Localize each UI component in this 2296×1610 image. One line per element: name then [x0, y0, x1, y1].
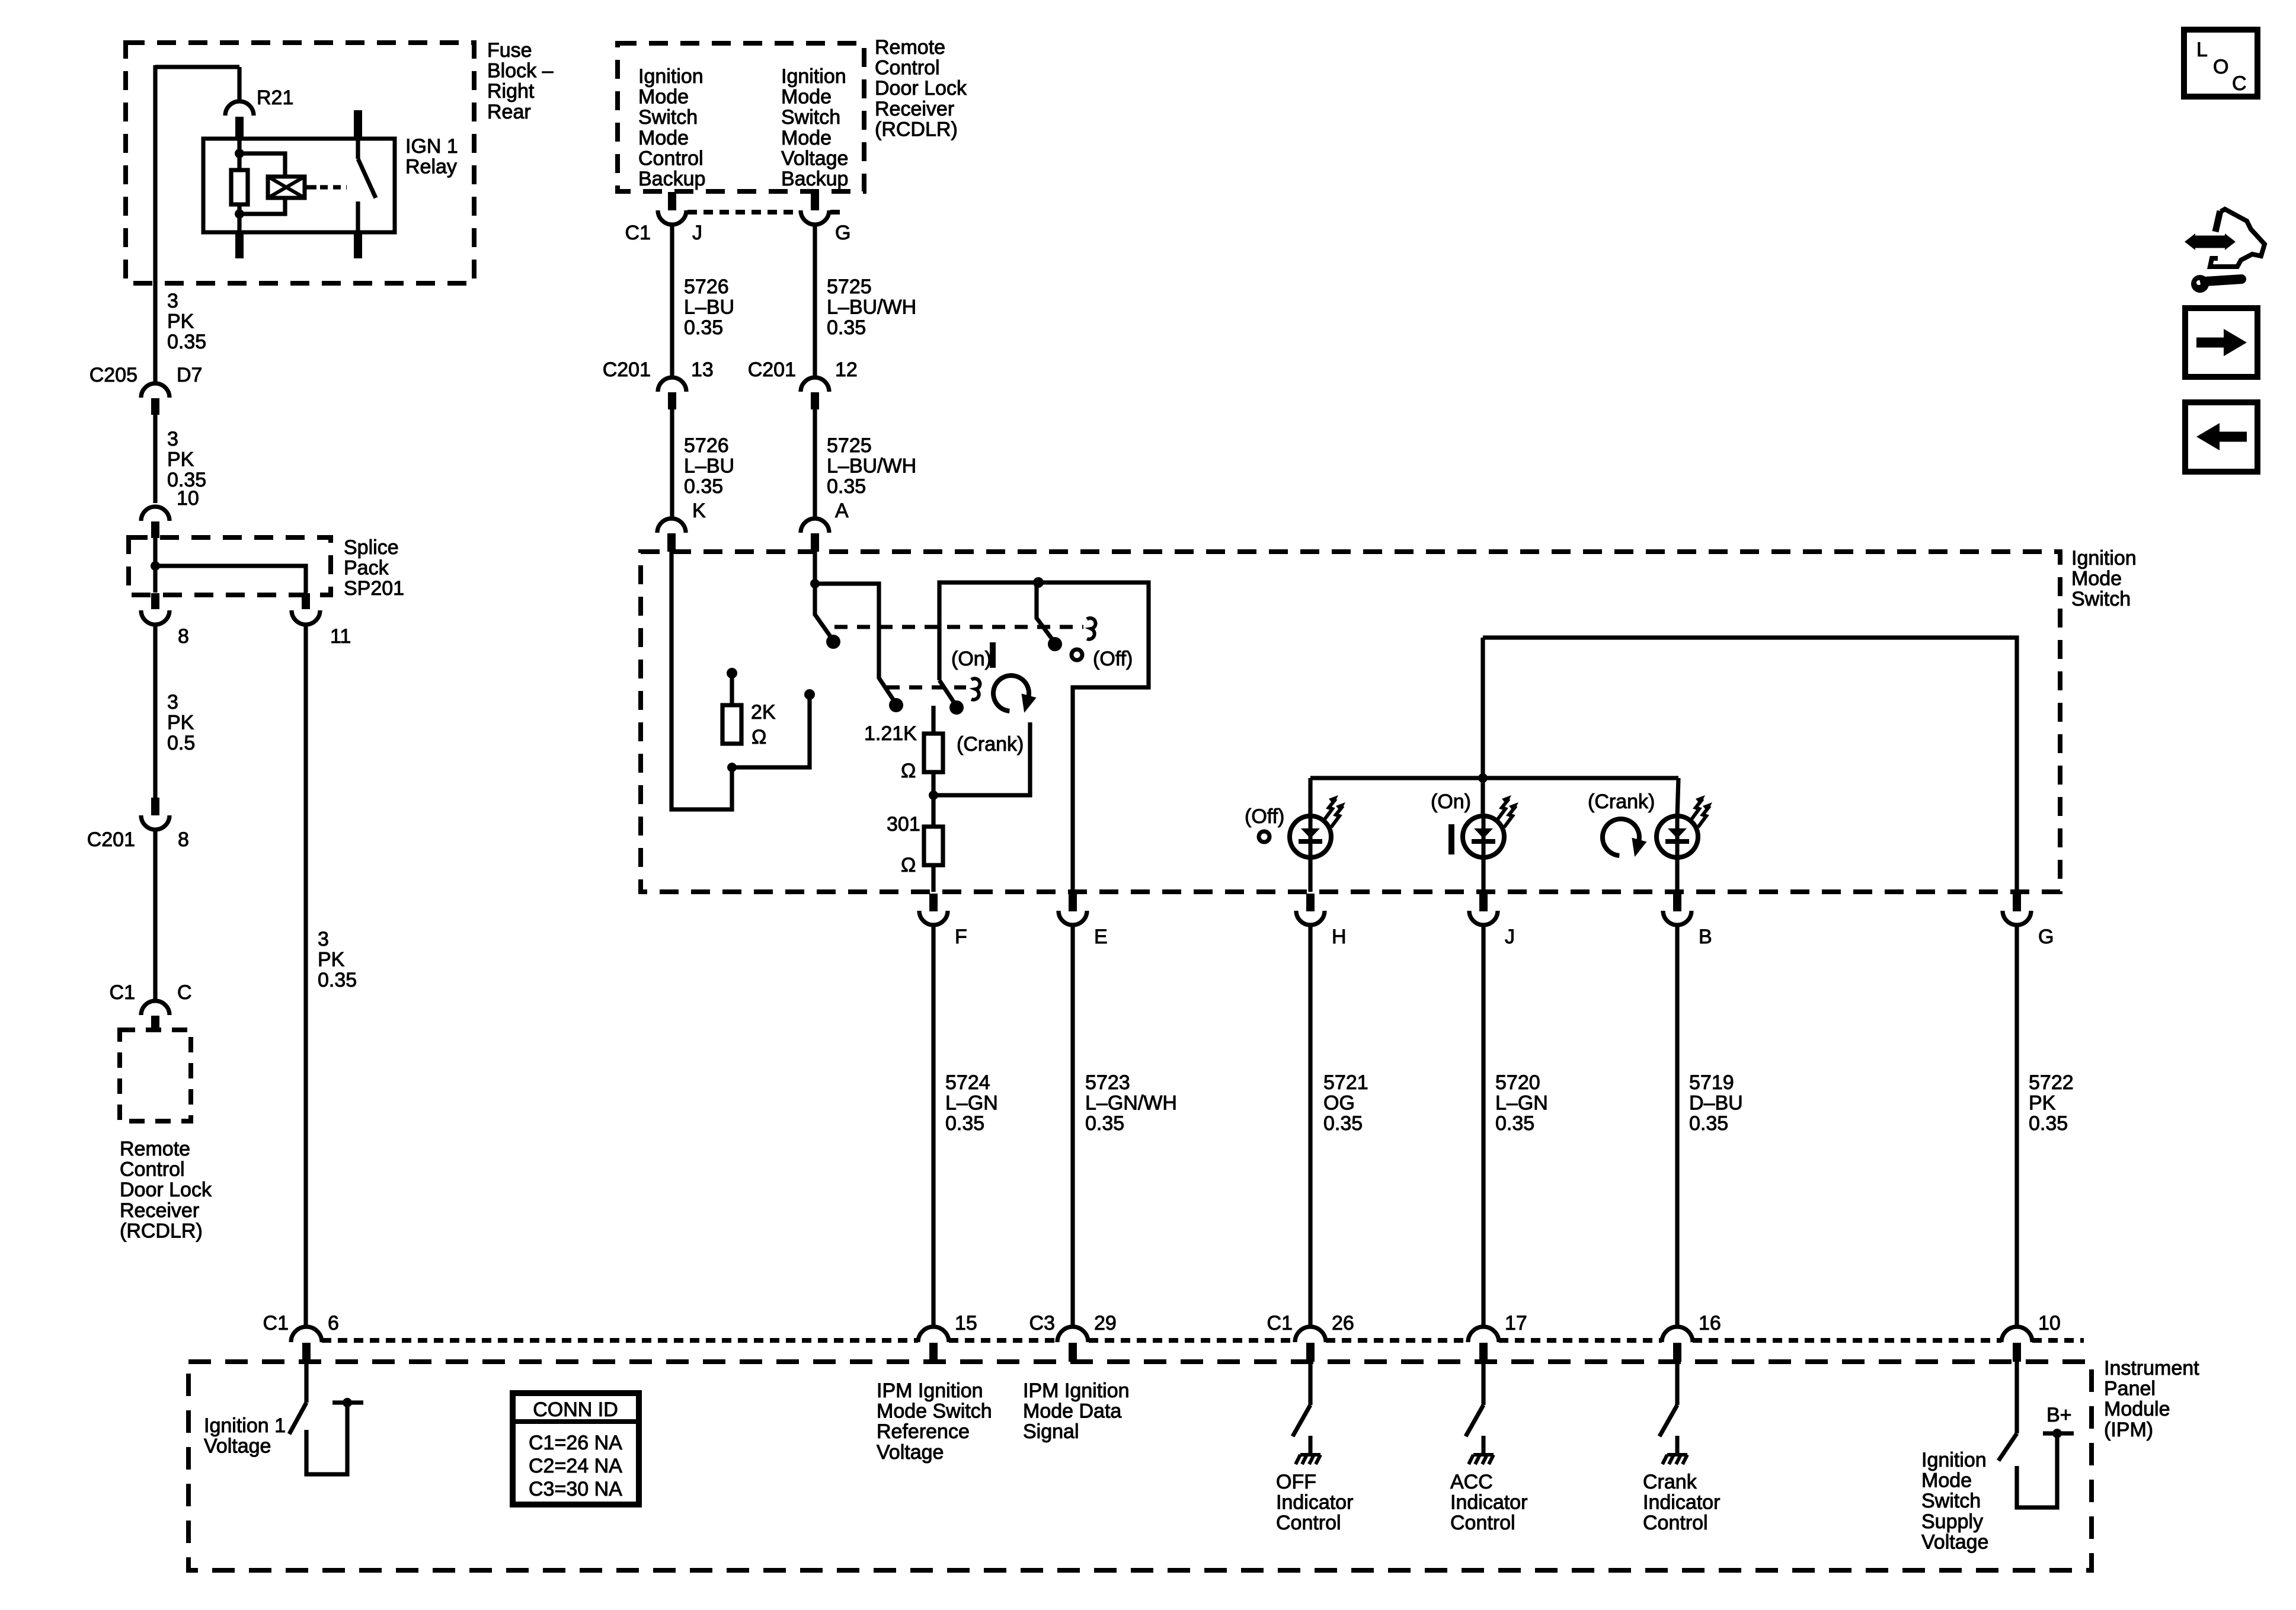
ground Crank Indicator Control [1662, 1436, 1687, 1464]
svg-text:H: H [1332, 926, 1347, 948]
pin terminal H (switch) [1306, 894, 1315, 911]
svg-text:13: 13 [691, 359, 714, 381]
switch arm 1 (mode control) [815, 584, 833, 641]
wire LED H to terminal [1308, 857, 1312, 892]
circle off LED marker [1259, 831, 1269, 842]
arm 1 end dot [826, 635, 840, 649]
svg-text:C1: C1 [1267, 1312, 1293, 1334]
connector arc terminal B [1663, 911, 1691, 925]
svg-text:C201: C201 [603, 359, 651, 381]
wire 5720 run [1481, 926, 1485, 1327]
wire LED feed vertical [1480, 638, 1485, 778]
pin IPM terminal 10 [2013, 1343, 2021, 1362]
pin terminal J (switch) [1479, 894, 1488, 911]
connector C205 arc [141, 383, 170, 398]
wire 5721 run [1308, 926, 1312, 1327]
junction node splice SP201 [151, 561, 160, 571]
svg-text:J: J [692, 222, 702, 244]
pin C205 terminal D7 [151, 398, 159, 415]
svg-text:(On): (On) [951, 648, 992, 670]
pin terminal B (switch) [1673, 894, 1681, 911]
connector arc terminal J [1469, 911, 1498, 925]
svg-text:L: L [2196, 39, 2208, 61]
wire IPM pin6 internal [304, 1362, 308, 1403]
svg-text:15: 15 [955, 1312, 977, 1334]
switch arm Crank Indicator Control [1659, 1405, 1677, 1436]
wire relay coil top link [239, 153, 285, 177]
pin IPM terminal 15 [929, 1343, 938, 1362]
svg-text:IgnitionModeSwitchSupplyVoltag: IgnitionModeSwitchSupplyVoltage [1921, 1449, 1988, 1553]
wire B+ hook [2017, 1433, 2057, 1507]
wire LED bus horizontal [1310, 776, 1678, 780]
connector arc C1-C RCDLR [141, 1001, 170, 1015]
svg-text:C: C [2232, 72, 2247, 95]
pin IPM terminal 16 [1673, 1343, 1681, 1362]
pin RCDLR terminal G [811, 192, 819, 210]
resistor 1.21K [924, 734, 943, 772]
wire LED B to terminal [1675, 857, 1679, 892]
wire connector C1 dashed line (RCDLR) [687, 210, 800, 215]
On LED bar marker [1448, 824, 1454, 854]
coil relay IGN 1 [268, 177, 305, 198]
wire 5725 lower segment [813, 409, 817, 518]
connector C201 arc (left) [141, 815, 170, 830]
connector arc C201-12 [801, 377, 829, 392]
circle Off position indicator [1072, 649, 1082, 660]
wire connector C1 dashed line right stub [830, 210, 846, 215]
wire fuse block top horizontal [155, 65, 239, 69]
junction node 1.21K-301 [929, 790, 938, 800]
svg-text:10: 10 [2038, 1312, 2061, 1334]
svg-text:C1: C1 [625, 222, 651, 244]
svg-text:IgnitionModeSwitchModeVoltageB: IgnitionModeSwitchModeVoltageBackup [781, 65, 848, 190]
contact dot Off position pad [804, 689, 815, 700]
LOC reference box [2184, 30, 2257, 97]
wire crank contact to 1.21K [931, 706, 935, 734]
switch arm ignition 1 voltage [289, 1403, 306, 1434]
relay IGN 1 box [203, 139, 395, 232]
back arrow box [2185, 402, 2257, 472]
svg-text:8: 8 [178, 625, 189, 648]
switch arm OFF Indicator Control [1293, 1405, 1310, 1436]
svg-text:B: B [1699, 926, 1712, 948]
diagnostic icon: double arrow, outline, wrench [2193, 239, 2227, 245]
svg-text:O: O [2213, 56, 2228, 78]
connector arc terminal H [1296, 911, 1325, 925]
wire to fuse-block socket R21 [237, 67, 241, 101]
svg-text:(Off): (Off) [1245, 805, 1284, 828]
resistor 2K [722, 705, 741, 744]
pin terminal F (switch) [929, 894, 938, 911]
light arrows LED Crank [1691, 795, 1705, 820]
pin IPM terminal 29 [1069, 1343, 1077, 1362]
switch arm ignition mode switch supply [1998, 1433, 2017, 1461]
light arrows LED ON [1497, 795, 1511, 820]
wire K to 2K resistor [671, 552, 732, 809]
wire 5723 run [1070, 926, 1075, 1327]
On position bar [990, 642, 996, 668]
svg-text:Ω: Ω [901, 854, 916, 876]
junction node LED bus [1478, 773, 1488, 783]
wire IPM internal OFF Indicator Control [1308, 1362, 1312, 1405]
wiper contact symbol (off row) [1087, 618, 1095, 639]
connector arc IPM pin 6 [291, 1327, 322, 1342]
wire splice internal branch to 11 [155, 566, 306, 593]
wire 301 to terminal F [931, 865, 935, 892]
svg-text:11: 11 [330, 625, 351, 648]
connector arc splice exit 11 [292, 610, 320, 625]
svg-text:12: 12 [835, 359, 858, 381]
LED OFF indicator [1290, 816, 1331, 857]
switch arm 4 (off position) [1037, 582, 1055, 643]
svg-text:301: 301 [887, 813, 920, 836]
connector arc IPM pin 17 [1468, 1327, 1499, 1342]
junction node 2K bottom [727, 763, 737, 772]
pin C201 terminal 12 [811, 392, 819, 409]
svg-text:D7: D7 [177, 364, 202, 386]
pin IPM terminal 26 [1306, 1343, 1315, 1362]
svg-text:Ω: Ω [752, 726, 766, 748]
connector arc terminal G [2003, 911, 2031, 925]
junction node off arm pivot [1033, 577, 1044, 588]
connector socket arc R21 [225, 101, 254, 116]
svg-text:2K: 2K [751, 701, 776, 724]
svg-text:29: 29 [1094, 1312, 1117, 1334]
svg-text:C201: C201 [748, 359, 796, 381]
svg-text:K: K [692, 500, 706, 522]
RCDLR dashed box (left) [120, 1030, 191, 1121]
wire 5726 lower segment [670, 409, 674, 518]
contact bar ignition1 [332, 1400, 363, 1404]
svg-text:17: 17 [1505, 1312, 1527, 1334]
pin splice exit 8 [151, 593, 159, 609]
svg-text:16: 16 [1699, 1312, 1721, 1334]
wire to LED B [1677, 778, 1678, 817]
fuse block - right rear dashed box [126, 43, 474, 283]
pin R21 [235, 117, 244, 137]
svg-text:6: 6 [328, 1312, 339, 1334]
svg-text:R21: R21 [257, 87, 293, 109]
svg-text:26: 26 [1332, 1312, 1354, 1334]
svg-text:(Crank): (Crank) [957, 733, 1024, 756]
svg-text:B+: B+ [2046, 1404, 2072, 1426]
svg-text:C: C [177, 981, 192, 1004]
wire crank position contact link [933, 722, 1030, 795]
pin relay bottom left stub [235, 232, 244, 258]
CONN ID table [513, 1393, 639, 1505]
wire A into switch [813, 552, 817, 584]
junction node A [810, 579, 820, 588]
pin splice exit 11 [302, 593, 310, 609]
instrument panel module dashed box [188, 1362, 2092, 1570]
wire 5722 run [2014, 926, 2019, 1327]
wire IPM internal ACC Indicator Control [1481, 1362, 1485, 1405]
svg-text:CONN ID: CONN ID [533, 1398, 618, 1421]
wire switch common L-box to terminal E [939, 582, 1149, 892]
pin terminal E (switch) [1069, 894, 1077, 911]
wire 1.21K to 301 [931, 772, 935, 827]
arm 4 end dot [1048, 637, 1062, 651]
wire IPM internal Crank Indicator Control [1675, 1362, 1679, 1405]
svg-text:G: G [2038, 926, 2054, 948]
resistor 301 [924, 827, 943, 865]
svg-text:(Off): (Off) [1093, 648, 1133, 670]
wire connector C1 dashed line (IPM) [322, 1338, 918, 1343]
wire relay switch bottom contact [356, 201, 360, 232]
wire splice internal left [153, 538, 157, 593]
connector arc IPM pin 16 [1662, 1327, 1693, 1342]
rotation arrow (crank position) [993, 676, 1029, 711]
RCDLR dashed box (top) [618, 43, 864, 191]
svg-text:Ω: Ω [901, 760, 916, 782]
arm 2 end dot [889, 698, 903, 712]
switch arm ACC Indicator Control [1466, 1405, 1483, 1436]
connector arc RCDLR G [801, 210, 829, 225]
splice pack SP201 dashed box [129, 537, 331, 595]
resistor relay internal [231, 170, 248, 204]
svg-text:1.21K: 1.21K [864, 722, 917, 745]
wire splice 11 down to IPM C1-6 [303, 626, 308, 1327]
wire relay switch top contact [356, 139, 360, 159]
wire C201 to RCDLR C1 [153, 831, 157, 1000]
connector arc IPM pin 29 [1057, 1327, 1088, 1342]
arm 3 end dot [949, 700, 964, 715]
pin IPM terminal 17 [1479, 1343, 1488, 1362]
svg-text:F: F [955, 926, 967, 948]
contact dot 2K top [727, 668, 737, 678]
wire from relay feed down to C205 [153, 65, 157, 382]
junction node B+ [2052, 1429, 2062, 1438]
pin C201 terminal 13 [668, 392, 676, 409]
pin ignition mode switch terminal K [667, 533, 676, 552]
svg-text:C1: C1 [263, 1312, 289, 1334]
connector arc splice exit 8 [141, 610, 170, 625]
connector arc terminal E [1059, 911, 1087, 925]
svg-text:10: 10 [177, 487, 199, 510]
svg-text:8: 8 [178, 828, 189, 851]
svg-text:C1: C1 [110, 981, 135, 1004]
wire 5725 upper segment [813, 226, 817, 376]
ground ACC Indicator Control [1469, 1436, 1494, 1464]
connector arc terminal K [657, 518, 686, 533]
wire coil to armature dashed link [320, 185, 347, 189]
svg-text:IgnitionModeSwitchModeControlB: IgnitionModeSwitchModeControlBackup [638, 65, 705, 190]
wire C205 to splice pack [153, 415, 157, 503]
contact bar B+ [2043, 1431, 2074, 1435]
svg-text:(On): (On) [1431, 790, 1471, 813]
wire to LED J [1480, 778, 1485, 817]
svg-text:C3: C3 [1029, 1312, 1055, 1334]
LED ON (ACC) indicator [1463, 816, 1504, 857]
wire ignition1 hook [306, 1403, 347, 1474]
wire coil to armature solid [305, 185, 316, 189]
svg-text:J: J [1505, 926, 1515, 948]
junction relay coil top [235, 149, 244, 158]
wire relay left internal [237, 139, 241, 232]
connector arc splice pack terminal 10 [141, 507, 170, 521]
dashed coupling row 2 [887, 686, 966, 690]
svg-text:G: G [835, 222, 850, 244]
connector arc IPM pin 26 [1295, 1327, 1326, 1342]
svg-text:C205: C205 [89, 364, 137, 386]
pin C201 terminal 8 male [151, 798, 159, 815]
connector arc RCDLR J [658, 210, 686, 225]
svg-text:E: E [1094, 926, 1108, 948]
wire 2K top lead [730, 676, 734, 705]
rotation arrow (crank LED) [1603, 819, 1639, 856]
forward arrow box [2185, 308, 2257, 377]
LED Crank indicator [1657, 816, 1698, 857]
pin RCDLR terminal J [668, 192, 676, 210]
wire 5724 run [931, 926, 935, 1327]
pin RCDLR terminal C [151, 1016, 159, 1032]
wire supply from terminal G to LED bus [1483, 638, 2017, 892]
wire 5719 run [1675, 926, 1679, 1327]
wire LED J to terminal [1481, 857, 1485, 892]
wire splice 8 down to C201 [153, 626, 157, 799]
wiper contact symbol (crank row) [971, 678, 980, 700]
junction ignition1 hook [343, 1398, 352, 1407]
connector arc IPM pin 10 [2001, 1327, 2032, 1342]
pin relay bottom right stub [354, 232, 362, 258]
connector arc IPM pin 15 [918, 1327, 949, 1342]
connector arc C201-13 [658, 377, 686, 392]
ignition mode switch dashed box [641, 552, 2060, 892]
light arrows LED OFF [1324, 795, 1338, 820]
svg-text:IGN 1Relay: IGN 1Relay [405, 135, 458, 178]
connector arc terminal F [919, 911, 948, 925]
wire to LED H [1308, 778, 1312, 817]
wire IPM pin10 internal [2014, 1362, 2019, 1433]
wire relay coil bottom link [239, 198, 285, 214]
wire 5726 upper segment [670, 226, 674, 376]
pin terminal G (switch) [2013, 894, 2021, 911]
svg-text:C1=26 NAC2=24 NAC3=30 NA: C1=26 NAC2=24 NAC3=30 NA [529, 1432, 622, 1500]
pin splice pack terminal 10 [151, 521, 159, 538]
wire 2K bottom to Off contact [732, 694, 810, 767]
wire branch and switch arm 2 [815, 584, 896, 704]
svg-text:A: A [835, 500, 849, 522]
junction relay coil bottom [235, 209, 244, 219]
pin ignition mode switch terminal A [811, 533, 819, 552]
pin relay top right stub [354, 110, 362, 139]
svg-text:C201: C201 [87, 828, 135, 851]
ground OFF Indicator Control [1296, 1436, 1320, 1464]
switch arm relay contact [358, 159, 376, 198]
pin IPM terminal 6 [302, 1343, 311, 1362]
connector arc terminal A [801, 518, 829, 533]
svg-text:(Crank): (Crank) [1588, 790, 1655, 813]
dashed coupling row 1 [834, 625, 1083, 629]
switch arm 3 (on position) [939, 680, 957, 706]
